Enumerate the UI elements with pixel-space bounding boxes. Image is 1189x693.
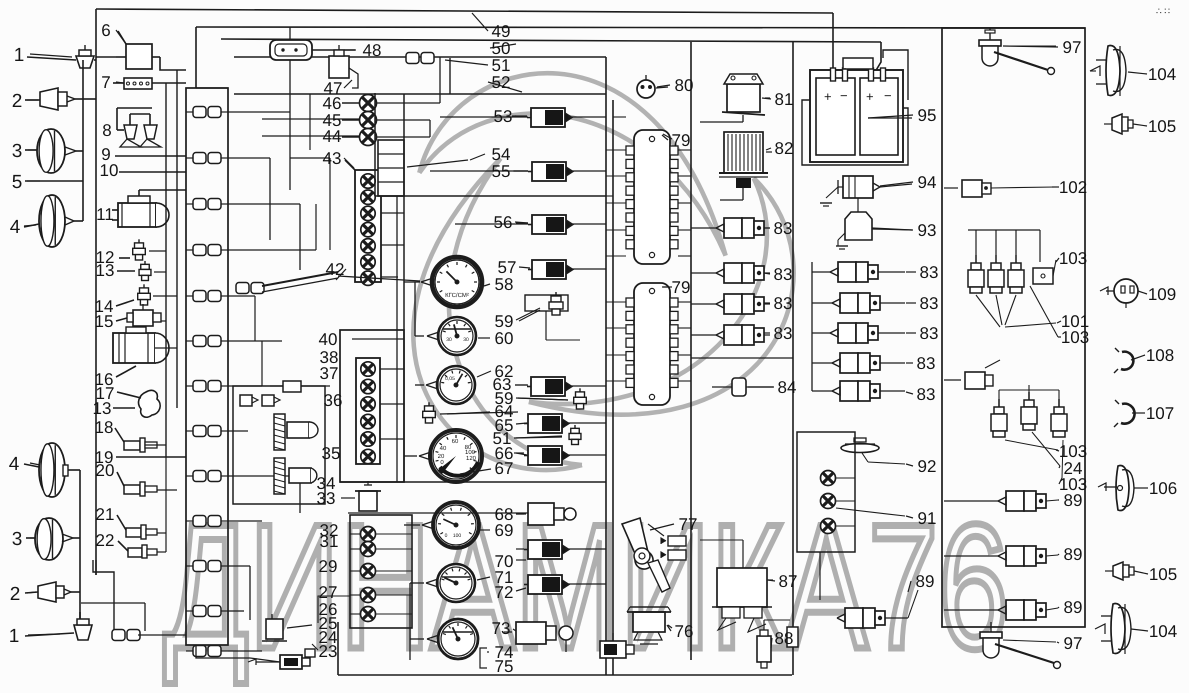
horn 1 top — [76, 56, 94, 68]
lamp 29 — [361, 564, 376, 579]
motor 11 — [118, 203, 156, 227]
svg-text:75: 75 — [495, 657, 514, 676]
connector 56 — [532, 215, 566, 234]
brake chamber 3 top — [37, 129, 65, 173]
wire battery col bottom — [819, 552, 821, 600]
sensor 59b — [576, 392, 585, 397]
svg-text:0,05: 0,05 — [445, 376, 455, 382]
svg-text:83: 83 — [920, 294, 939, 313]
svg-text:120: 120 — [466, 455, 477, 462]
wiper motor 34a — [274, 458, 285, 494]
cone 105 top — [1112, 114, 1122, 134]
pressure gauge 57-58 — [432, 257, 482, 307]
brake chamber 104 bottom — [1111, 604, 1125, 654]
svg-text:82: 82 — [775, 139, 794, 158]
svg-text:13: 13 — [93, 399, 112, 418]
lamp 44 — [360, 129, 377, 146]
wire left margin vertical — [82, 60, 84, 221]
svg-text:91: 91 — [918, 509, 937, 528]
svg-text:2: 2 — [10, 584, 21, 605]
connector 57 — [532, 260, 566, 279]
connector 72 — [528, 575, 562, 594]
box 40 — [340, 330, 404, 482]
sensor 12 — [135, 243, 144, 248]
svg-text:89: 89 — [1064, 545, 1083, 564]
svg-text:72: 72 — [495, 583, 514, 602]
svg-text:20: 20 — [96, 461, 115, 480]
ground 94 — [826, 187, 838, 198]
svg-text:108: 108 — [1146, 346, 1174, 365]
valve 15 — [133, 310, 153, 326]
svg-text:20: 20 — [438, 453, 445, 460]
connector 83 f — [840, 293, 858, 313]
socket 80 — [637, 80, 655, 98]
svg-text:13: 13 — [96, 261, 115, 280]
connector 89 r2 — [1006, 546, 1024, 566]
svg-text:35: 35 — [322, 444, 341, 463]
pointer dashes — [30, 54, 72, 57]
wire top runs — [196, 87, 228, 89]
battery loop wire — [802, 100, 908, 165]
socket 109 — [1114, 279, 1138, 303]
battery bridge — [843, 58, 873, 69]
svg-text:92: 92 — [918, 457, 937, 476]
svg-text:4: 4 — [9, 454, 20, 475]
svg-text:67: 67 — [495, 459, 514, 478]
bottom frame line — [338, 674, 792, 676]
svg-text:5: 5 — [12, 172, 23, 193]
left connector strip column — [186, 88, 228, 645]
svg-text:−: − — [884, 88, 892, 103]
wire mesh extras — [290, 157, 330, 159]
connector 55 — [532, 162, 566, 181]
regulator 93 — [845, 212, 872, 240]
svg-text:100: 100 — [465, 449, 476, 456]
svg-text:6: 6 — [101, 21, 110, 40]
connector 83 c — [724, 294, 742, 314]
svg-text:1: 1 — [14, 45, 25, 66]
connector 89 bottom — [845, 608, 863, 628]
battery 95 — [810, 70, 903, 162]
wire lower-left vertical — [79, 470, 81, 623]
svg-text:89: 89 — [1064, 598, 1083, 617]
svg-text:102: 102 — [1059, 178, 1087, 197]
divider x613 — [612, 100, 614, 675]
plug 103 u3 — [1058, 399, 1060, 407]
svg-text:89: 89 — [1064, 491, 1083, 510]
svg-text:22: 22 — [96, 531, 115, 550]
wire drop at x196 — [195, 27, 197, 88]
svg-text:107: 107 — [1146, 404, 1174, 423]
connector 89 r1 — [1006, 491, 1024, 511]
svg-text:23: 23 — [319, 642, 338, 661]
plug 24 u2 — [1028, 392, 1030, 400]
svg-text:97: 97 — [1063, 38, 1082, 57]
panel line y513 — [348, 512, 530, 514]
svg-text:79: 79 — [672, 278, 691, 297]
canister 25 — [266, 619, 283, 639]
central divider battery column — [792, 42, 794, 675]
frame fourth top line — [234, 56, 606, 58]
lamp 27 — [361, 588, 376, 603]
lamp 91a — [821, 471, 836, 486]
relay 7 — [124, 78, 152, 89]
svg-text:83: 83 — [920, 324, 939, 343]
svg-text:40: 40 — [440, 445, 447, 452]
svg-text:73: 73 — [492, 619, 511, 638]
wires 43 block — [381, 180, 404, 182]
svg-text:79: 79 — [672, 131, 691, 150]
faucet 97 bottom — [980, 632, 1002, 638]
frame second top line — [196, 27, 1085, 28]
svg-text:29: 29 — [319, 557, 338, 576]
sensor 59 upper — [525, 295, 568, 311]
wire 4 — [24, 224, 39, 227]
wire 6 to frame — [96, 56, 116, 58]
wires 36 right — [380, 368, 404, 370]
lamp 45 — [360, 112, 377, 129]
wire 2 lower — [25, 592, 38, 593]
svg-text:77: 77 — [679, 515, 698, 534]
connector 83 a — [724, 218, 742, 238]
plug 18 — [124, 441, 140, 450]
svg-text:83: 83 — [774, 265, 793, 284]
plug 88b — [787, 627, 798, 647]
connector 83 d — [724, 325, 742, 345]
fuse 37 — [283, 381, 301, 392]
svg-text:56: 56 — [494, 213, 513, 232]
brake chamber 4 lower — [39, 443, 65, 497]
connector block 79 lower — [634, 283, 670, 405]
wire 55 row — [430, 170, 528, 172]
svg-text:103: 103 — [1059, 249, 1087, 268]
svg-text:∴ ∷: ∴ ∷ — [1156, 6, 1170, 16]
rod 97 bottom — [995, 644, 1054, 663]
dimmer pedal 77 — [622, 518, 653, 569]
wire 8-6 vertical — [116, 108, 118, 130]
box around wipers — [233, 386, 325, 504]
svg-text:87: 87 — [779, 572, 798, 591]
wire 13b — [113, 407, 135, 409]
lamp block 43 — [355, 170, 381, 282]
svg-text:105: 105 — [1148, 117, 1176, 136]
svg-text:31: 31 — [320, 532, 339, 551]
wire 53 row — [440, 116, 527, 118]
svg-text:104: 104 — [1149, 622, 1177, 641]
sensor 64 left — [425, 406, 434, 411]
svg-text:+: + — [866, 89, 874, 104]
flasher 81 — [727, 84, 760, 112]
plug trio 2 wires — [998, 390, 1000, 406]
central divider left — [605, 57, 607, 675]
box 87 — [717, 568, 767, 607]
lamp panel 23-32 box — [350, 515, 412, 628]
svg-text:80: 80 — [675, 76, 694, 95]
wire 9 — [115, 155, 186, 157]
svg-text:КГС/СМ²: КГС/СМ² — [445, 292, 469, 299]
svg-text:33: 33 — [317, 489, 336, 508]
lamp 91b — [821, 494, 836, 509]
rod 97 top — [994, 52, 1048, 70]
svg-text:30: 30 — [463, 337, 469, 343]
motor 16 big — [113, 333, 155, 363]
connector 83 i — [840, 381, 858, 401]
svg-text:81: 81 — [775, 90, 794, 109]
lamp 46 — [360, 95, 377, 112]
horn pair 8 — [124, 125, 137, 139]
sensor 13 — [141, 264, 150, 269]
connector 65 — [528, 414, 562, 433]
gauge 68-69 — [433, 502, 479, 548]
left column feeder wires — [165, 83, 167, 457]
lamp fixture 47 — [329, 56, 349, 78]
wire rows right of divider — [613, 116, 626, 118]
speedometer 67 — [430, 430, 482, 482]
connector block 79 upper — [634, 130, 670, 264]
switch blade 42 — [236, 283, 249, 294]
wire 4 lower — [24, 464, 39, 467]
plug 20 — [124, 485, 140, 494]
connector 51 on line — [406, 53, 419, 64]
plug 21 — [126, 528, 141, 537]
svg-text:60: 60 — [452, 438, 459, 445]
wire 3 — [25, 149, 37, 151]
connector 70 — [528, 540, 562, 559]
wire 19 — [116, 456, 186, 458]
svg-text:83: 83 — [917, 385, 936, 404]
clamp 108 — [1121, 352, 1133, 370]
connector 63 — [531, 377, 565, 396]
svg-text:+: + — [824, 89, 832, 104]
wire col7 left vertical — [811, 262, 813, 391]
svg-text:53: 53 — [494, 107, 513, 126]
wire 95 label — [868, 117, 912, 119]
wire bottom mid verticals — [525, 294, 530, 296]
lamp 26 — [361, 607, 376, 622]
connector 83 g — [838, 323, 856, 343]
lamp 32 — [361, 527, 376, 542]
wire 54 dash — [407, 160, 468, 167]
sensor 14 — [140, 288, 149, 293]
connector strip barrels — [193, 107, 206, 118]
lamp box 91 — [797, 432, 855, 552]
bottom mid wires — [196, 645, 250, 658]
svg-text:3: 3 — [12, 141, 23, 162]
svg-text:42: 42 — [326, 260, 345, 279]
brake chamber 3 lower — [35, 518, 63, 560]
wire col6 cross — [691, 357, 793, 359]
svg-text:84: 84 — [778, 378, 797, 397]
connector 66 — [528, 446, 562, 465]
svg-text:103: 103 — [1061, 328, 1089, 347]
sensor 24 bottom — [280, 655, 302, 669]
panel inner left edge — [396, 196, 398, 482]
panel line y482 — [340, 481, 606, 483]
wire 5 — [25, 180, 83, 182]
dome lamp 48 — [270, 40, 312, 60]
switch dark bottom — [600, 641, 626, 658]
fuse stack 54 — [378, 140, 404, 196]
connector 83 e — [838, 262, 856, 282]
wire 3 lower — [26, 537, 35, 539]
panel divider y196 — [375, 195, 606, 197]
bottom-left wire set — [93, 560, 114, 631]
wire 1 — [27, 57, 76, 60]
wire 10 — [119, 171, 186, 173]
svg-text:83: 83 — [917, 354, 936, 373]
wire lamp rows — [350, 533, 360, 535]
connectors 77 — [668, 536, 686, 546]
svg-text:83: 83 — [774, 294, 793, 313]
svg-text:58: 58 — [495, 275, 514, 294]
gauge 62-63 — [437, 366, 475, 404]
pointer 103-24-103 — [1005, 440, 1058, 450]
wire 1 bottom — [25, 633, 74, 636]
cone 105 bottom — [1113, 562, 1123, 580]
svg-text:4: 4 — [10, 217, 21, 238]
svg-text:36: 36 — [324, 391, 343, 410]
wires 101 converge — [976, 295, 1000, 327]
horn 2 lower — [38, 582, 56, 602]
svg-text:1: 1 — [9, 626, 20, 647]
lamp block 36 — [356, 358, 380, 464]
connector 89 r3 — [1006, 600, 1024, 620]
wiper motor 35a — [274, 414, 285, 450]
svg-text:97: 97 — [1064, 634, 1083, 653]
svg-text:95: 95 — [918, 106, 937, 125]
bracket 74-75 — [480, 648, 487, 668]
starter relay 94 — [843, 176, 873, 198]
svg-text:89: 89 — [916, 572, 935, 591]
wire long row 196 ext — [606, 195, 613, 197]
svg-text:0: 0 — [445, 533, 448, 539]
svg-text:106: 106 — [1149, 479, 1177, 498]
svg-text:15: 15 — [95, 312, 114, 331]
svg-text:3: 3 — [12, 529, 23, 550]
svg-text:83: 83 — [920, 263, 939, 282]
svg-text:−: − — [840, 88, 848, 103]
faucet 97 top — [979, 40, 1001, 46]
svg-text:105: 105 — [1149, 565, 1177, 584]
svg-text:40: 40 — [319, 330, 338, 349]
svg-text:52: 52 — [492, 73, 511, 92]
svg-text:7: 7 — [101, 73, 110, 92]
brake chamber 106 — [1116, 465, 1129, 510]
svg-text:48: 48 — [363, 41, 382, 60]
plug pair 38 — [240, 395, 252, 406]
wires gauges vertical — [404, 281, 420, 283]
wire 93 up — [857, 198, 859, 212]
wires 79 left — [606, 149, 626, 151]
frame outer left edge — [95, 9, 97, 575]
plug 22 — [128, 548, 142, 557]
connector 103 r — [965, 372, 985, 389]
relay box 6 — [126, 44, 152, 69]
svg-text:109: 109 — [1148, 285, 1176, 304]
wire 56 row — [455, 223, 528, 225]
plug 103 t2 — [995, 255, 997, 263]
wire 42 to pressure gauge — [338, 276, 420, 281]
lamp 91c — [821, 519, 836, 534]
plug 103 t3 — [1015, 255, 1017, 263]
svg-text:44: 44 — [323, 127, 342, 146]
svg-text:83: 83 — [774, 219, 793, 238]
capacitor 33 — [359, 491, 377, 511]
svg-text:94: 94 — [918, 173, 937, 192]
central divider 79 column — [690, 42, 692, 660]
svg-text:60: 60 — [495, 329, 514, 348]
wire 2 — [25, 99, 40, 101]
svg-text:21: 21 — [96, 505, 115, 524]
frame outer top line — [96, 9, 833, 13]
wires lamps right — [377, 102, 440, 104]
svg-text:100: 100 — [453, 533, 462, 539]
right panel box — [942, 28, 1085, 627]
plug 103 t1 — [975, 255, 977, 263]
svg-text:18: 18 — [95, 418, 114, 437]
wire mesh rows — [228, 111, 290, 113]
horn 2 top — [40, 88, 58, 110]
clamp 107 — [1121, 404, 1135, 424]
lever 17 — [139, 390, 161, 417]
svg-text:11: 11 — [96, 205, 114, 224]
frame third top line — [221, 39, 881, 42]
svg-text:69: 69 — [495, 521, 514, 540]
plug 23 bottom — [305, 649, 315, 657]
wire battery feed from top line — [832, 13, 834, 72]
svg-text:83: 83 — [774, 324, 793, 343]
watermark swirl logo — [343, 73, 840, 515]
connector 53 — [531, 108, 565, 127]
connector 102 — [962, 180, 982, 197]
svg-text:43: 43 — [323, 149, 342, 168]
gauge 73-74-75 — [438, 619, 478, 659]
svg-text:104: 104 — [1148, 65, 1176, 84]
svg-text:8: 8 — [102, 121, 111, 140]
wire elbow 52 — [449, 58, 451, 94]
heater 82 — [724, 132, 763, 173]
svg-text:10: 10 — [100, 161, 119, 180]
svg-text:30: 30 — [446, 337, 452, 343]
svg-text:55: 55 — [492, 162, 511, 181]
brake chamber 4 top — [39, 195, 65, 247]
valve 73 — [516, 622, 546, 644]
plug 103 u1 — [998, 399, 1000, 407]
svg-text:93: 93 — [918, 221, 937, 240]
connector 103 q — [1033, 268, 1053, 284]
bottom wires col6 — [742, 540, 744, 568]
sensor 51b — [571, 428, 580, 433]
svg-text:88: 88 — [775, 629, 794, 648]
svg-text:37: 37 — [320, 364, 339, 383]
horn 1 bottom — [74, 625, 92, 640]
connector 83 b — [724, 263, 742, 283]
gauge 70-71 — [437, 564, 475, 602]
wire battery feed 2 — [875, 42, 881, 72]
brake chamber 104 top — [1106, 46, 1120, 96]
plug group 103 wires — [968, 229, 1040, 231]
svg-text:2: 2 — [12, 91, 23, 112]
connector 83 h — [840, 353, 858, 373]
relay 76 — [633, 612, 665, 632]
lamp 31 — [361, 542, 376, 557]
horn 92 — [841, 444, 879, 453]
gauge 59-60 — [438, 317, 476, 355]
switch 68 — [528, 503, 554, 525]
cylinder 88 — [757, 636, 771, 662]
wire 11 — [138, 190, 140, 196]
plug 84 — [732, 378, 746, 396]
